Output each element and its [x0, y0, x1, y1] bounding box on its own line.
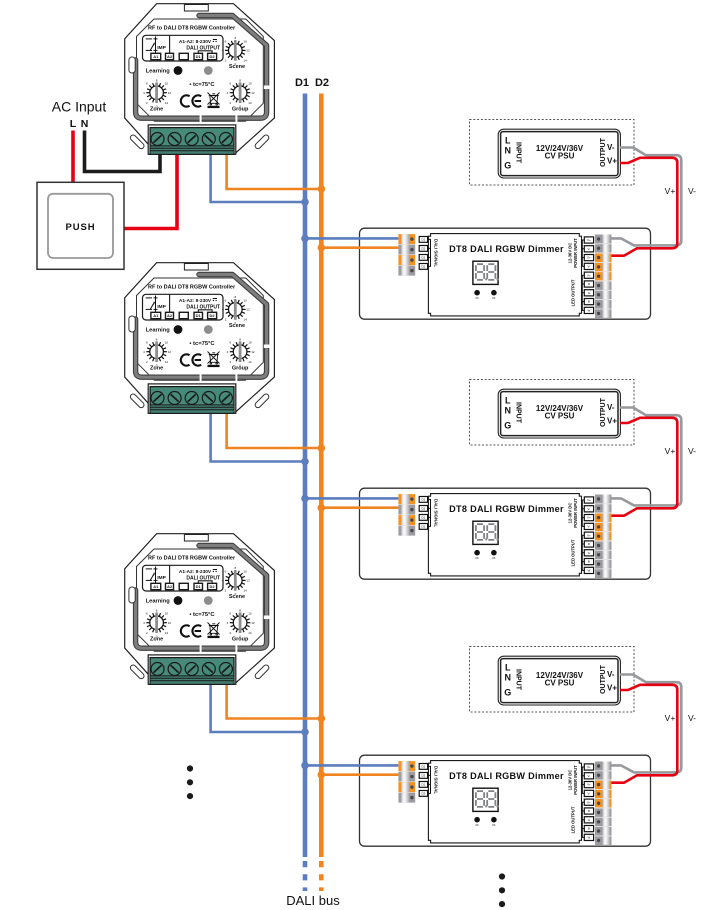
svg-text:PUSH: PUSH — [66, 222, 96, 233]
svg-text:V-: V- — [688, 186, 696, 196]
svg-text:L: L — [70, 118, 77, 130]
svg-text:V+: V+ — [665, 186, 676, 196]
svg-text:AC Input: AC Input — [52, 99, 107, 115]
svg-text:N: N — [81, 118, 89, 130]
svg-text:D2: D2 — [315, 77, 329, 89]
svg-text:DALI bus: DALI bus — [286, 893, 340, 908]
svg-text:D1: D1 — [295, 77, 309, 89]
